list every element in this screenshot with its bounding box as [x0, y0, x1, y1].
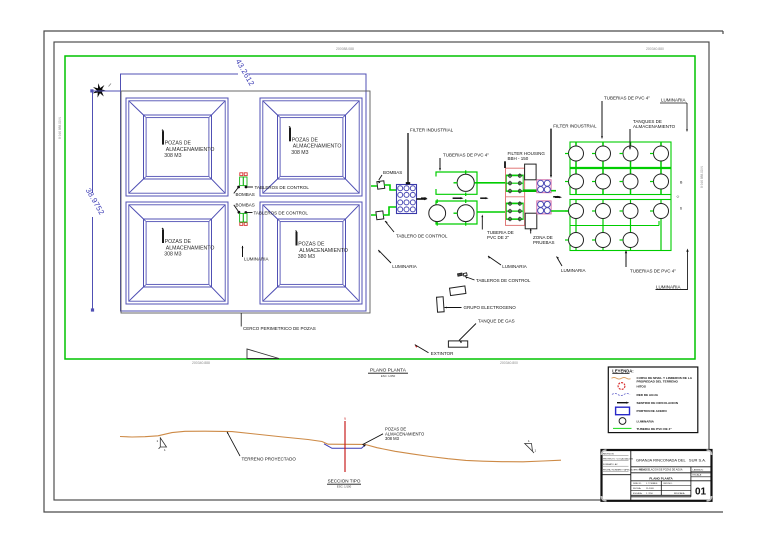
tuberias pvc4 bottom label: [625, 250, 676, 273]
svg-text:TUBERIAS DE PVC 4": TUBERIAS DE PVC 4": [443, 153, 489, 158]
grupo electrogeno rect: [437, 297, 445, 312]
svg-text:LUMINARIA: LUMINARIA: [392, 264, 417, 269]
legend box: [608, 367, 698, 433]
outer sheet border: [44, 31, 723, 512]
svg-text:REVISO:: REVISO:: [664, 483, 673, 485]
svg-text:200340.888: 200340.888: [192, 361, 210, 365]
dim text 38.9752: [88, 193, 98, 217]
svg-text:PORTON DE ACERO: PORTON DE ACERO: [637, 409, 668, 413]
bomba pump 1: [377, 181, 385, 189]
tablero rect rotated: [450, 286, 466, 296]
svg-text:PVC DE 2": PVC DE 2": [487, 235, 510, 240]
filter industrial label + leader: [406, 128, 454, 184]
svg-text:TABLEROS DE CONTROL: TABLEROS DE CONTROL: [476, 278, 531, 283]
filter housing red cabinet: [506, 168, 525, 225]
svg-text:11-2020: 11-2020: [646, 488, 655, 490]
svg-text:PLANO PLANTA: PLANO PLANTA: [370, 368, 407, 374]
svg-text:BOMBAS: BOMBAS: [236, 203, 255, 208]
title block outer: [602, 450, 712, 501]
svg-text:6: 6: [680, 207, 682, 211]
svg-text:SECCION TIPO: SECCION TIPO: [328, 479, 361, 484]
tank grid circles: [569, 146, 584, 161]
cerco perimetrico blue fence: [121, 74, 367, 311]
inner sheet border: [54, 42, 709, 500]
luminaria bottom right label: [656, 249, 689, 290]
svg-text:INDICADA: INDICADA: [674, 492, 685, 495]
svg-text:ESCALA:: ESCALA:: [633, 492, 643, 495]
bombas label lower: [234, 203, 255, 214]
svg-text:LUMINARIA: LUMINARIA: [502, 264, 527, 269]
svg-text:TABLEROS DE CONTROL: TABLEROS DE CONTROL: [255, 185, 310, 190]
svg-text:308 M3: 308 M3: [164, 252, 181, 258]
tableros de control bottom label: [465, 277, 531, 283]
pool P2 label: [289, 128, 291, 142]
svg-text:380 M3: 380 M3: [298, 254, 315, 260]
tank T3: [457, 205, 474, 222]
tank T2: [429, 205, 446, 222]
bombas label middle: [379, 170, 403, 183]
svg-text:POZAS DE: POZAS DE: [165, 141, 192, 147]
svg-text:ALMACENAMIENTO: ALMACENAMIENTO: [633, 124, 676, 129]
flow arrows row: [421, 197, 428, 199]
tank field green manifold: [570, 142, 671, 195]
svg-text:FECHA:: FECHA:: [633, 487, 641, 490]
svg-text:GRANJA RINCONADA DEL SUR S.A: GRANJA RINCONADA DEL SUR S.A.: [636, 458, 706, 463]
terrain projected line: [120, 431, 561, 462]
pipe loop2 to filter housing: [477, 211, 505, 213]
svg-text:TUBERIAS DE PVC 4": TUBERIAS DE PVC 4": [630, 268, 676, 273]
filter housing main green line in: [504, 182, 507, 184]
tank T1: [457, 174, 474, 191]
extintor leader with red tip: [415, 345, 454, 356]
pool P3 label: [162, 230, 164, 244]
svg-text:1 / 250: 1 / 250: [646, 493, 653, 495]
dimension line horizontal from star: [92, 90, 122, 92]
legend row 3 blue dashed: [612, 393, 630, 395]
svg-text:LUMINARIA: LUMINARIA: [637, 419, 655, 423]
pool P4 bottom-right: [260, 202, 362, 304]
svg-text:ESC: 1/100: ESC: 1/100: [337, 485, 352, 489]
legend row 4 arrow: [617, 402, 629, 404]
svg-text:CERCO PERIMETRICO DE POZAS: CERCO PERIMETRICO DE POZAS: [243, 326, 316, 331]
control symbol lower green boxes: [240, 223, 243, 226]
filter industrial box U1: [397, 185, 417, 214]
svg-text:LAMINA N:: LAMINA N:: [693, 468, 704, 471]
tuberias pvc4 label middle + leader: [439, 153, 489, 172]
svg-text:TABLERO DE CONTROL: TABLERO DE CONTROL: [396, 234, 448, 239]
legend row 1 terrain curve: [612, 378, 631, 380]
zona de pruebas label: [530, 228, 555, 245]
north star tick: [109, 84, 112, 87]
tank loop 1 green piping: [436, 172, 477, 194]
svg-text:POZAS DE: POZAS DE: [298, 242, 325, 248]
svg-text:PLANO PLANTA: PLANO PLANTA: [649, 477, 673, 481]
svg-text:PRUEBAS: PRUEBAS: [533, 240, 555, 245]
left bench flag: [159, 438, 167, 449]
svg-text:BOMBAS: BOMBAS: [383, 170, 402, 175]
legend row 7 green line: [613, 427, 632, 429]
grupo electrogeno label: [445, 305, 517, 310]
filter housing label: [505, 151, 545, 168]
pool P2 top-right: [260, 98, 362, 196]
svg-text:BBH - 150: BBH - 150: [508, 156, 529, 161]
svg-text:TANQUE DE GAS: TANQUE DE GAS: [478, 319, 515, 324]
tanque de gas label: [459, 319, 515, 344]
bomba pump 2: [376, 211, 384, 220]
svg-text:ALMACENAMIENTO: ALMACENAMIENTO: [166, 245, 215, 251]
pipe from T1 to filter housing: [474, 182, 505, 184]
section axis red line: [344, 421, 346, 472]
svg-text:ESCALA:: ESCALA:: [693, 474, 703, 477]
green pipes pumps to filter: [371, 185, 397, 190]
svg-text:J. TORRES: J. TORRES: [646, 483, 658, 485]
pool P4 label: [296, 232, 298, 246]
flow arrow after housing: [553, 196, 560, 198]
white rect top (housing): [525, 164, 537, 180]
pozas label section: [363, 427, 425, 447]
luminaria top right label: [660, 98, 688, 133]
svg-text:RED DE AGUA: RED DE AGUA: [637, 393, 659, 397]
svg-text:200088.088: 200088.088: [336, 47, 354, 51]
plan area green border: [65, 56, 695, 359]
luminaria bottom-left of tanks: [557, 257, 586, 273]
flow arrow out of filter: [417, 198, 428, 200]
zona de pruebas blue box 1: [537, 180, 551, 193]
slope triangle symbol: [247, 349, 279, 359]
zona de pruebas blue box 2: [537, 201, 551, 214]
filter housing green racks: [506, 175, 523, 191]
pool P3 bottom-left: [126, 202, 228, 304]
svg-text:FECHA / NOMBRE Y APELLIDO: FECHA / NOMBRE Y APELLIDO: [603, 469, 635, 472]
flow arrow into tank field: [555, 196, 562, 198]
svg-text:ALMACENAMIENTO: ALMACENAMIENTO: [166, 147, 215, 153]
svg-text:9: 9: [344, 417, 346, 421]
terreno proyectado label: [227, 432, 296, 462]
svg-text:FILTER INDUSTRIAL: FILTER INDUSTRIAL: [410, 128, 454, 133]
tableros de control label upper: [245, 185, 309, 190]
svg-text:TERRENO PROYECTADO: TERRENO PROYECTADO: [242, 457, 297, 462]
svg-text:BOMBAS: BOMBAS: [236, 192, 255, 197]
svg-text:FILTER INDUSTRIAL: FILTER INDUSTRIAL: [553, 123, 597, 128]
svg-text:308 M3: 308 M3: [291, 150, 308, 156]
svg-text:ALMACENAMIENTO: ALMACENAMIENTO: [299, 248, 348, 254]
luminaria label center: [488, 256, 527, 269]
luminaria label pools: [242, 246, 269, 262]
legend row 6 circle: [619, 418, 626, 425]
title block corner clips: [602, 450, 712, 501]
tuberia pvc2 label + leader: [481, 215, 513, 240]
tank loop 2 green piping: [436, 201, 477, 224]
legend row 2 red circle: [618, 383, 625, 390]
luminaria label left-middle: [378, 250, 417, 269]
tanques de almacenamiento label: [629, 119, 676, 150]
svg-text:LUMINARIA: LUMINARIA: [661, 98, 686, 103]
tuberias pvc4 top label: [601, 96, 650, 140]
svg-text:DIBUJO:: DIBUJO:: [633, 483, 642, 485]
pools gray enclosure: [121, 91, 370, 313]
dim text 43.2612: [238, 70, 249, 80]
svg-text:200340.880: 200340.880: [646, 47, 664, 51]
svg-text:TABLEROS DE CONTROL: TABLEROS DE CONTROL: [254, 210, 309, 215]
svg-text:01: 01: [695, 486, 707, 497]
svg-text:HITOS: HITOS: [637, 384, 646, 388]
green out of test boxes: [551, 190, 556, 192]
svg-text:REVISION:: REVISION:: [603, 454, 614, 456]
svg-text:LEYENDA:: LEYENDA:: [612, 368, 633, 373]
pond cross-section blue: [324, 444, 366, 449]
svg-text:EXTINTOR: EXTINTOR: [431, 351, 454, 356]
svg-text:POZAS DE: POZAS DE: [292, 137, 319, 143]
legend row 5 blue rect: [616, 407, 630, 415]
white rect bottom (housing): [525, 213, 537, 229]
svg-text:LUMINARIA: LUMINARIA: [656, 284, 681, 289]
tableros de control small marks: [458, 273, 463, 276]
svg-text:TUBERIA DE PVC DE 4": TUBERIA DE PVC DE 4": [637, 427, 673, 431]
dimension ticks: [91, 90, 93, 92]
svg-text:LUMINARIA: LUMINARIA: [244, 257, 269, 262]
svg-text:PROPIEDAD DEL TERRENO: PROPIEDAD DEL TERRENO: [637, 380, 679, 384]
pool P1 top-left: [126, 98, 228, 196]
svg-text:POZAS DE: POZAS DE: [165, 239, 192, 245]
dimension line vertical left: [92, 91, 94, 310]
tablero de control label middle: [385, 221, 448, 239]
svg-text:ALMACENAMIENTO: ALMACENAMIENTO: [293, 144, 342, 150]
north star symbol: [98, 83, 101, 90]
right bench flag: [525, 444, 534, 454]
svg-text:PROYECTO / LOCALIZACION: PROYECTO / LOCALIZACION: [603, 458, 634, 461]
pool P1 label: [162, 131, 164, 145]
svg-text:ESC: 1/250: ESC: 1/250: [381, 374, 396, 378]
tableros de control label lower: [245, 210, 309, 215]
svg-text:REMODELACION DE POZAS DE AGUA: REMODELACION DE POZAS DE AGUA: [639, 469, 683, 472]
svg-text:SENTIDO DE CIRCULACION: SENTIDO DE CIRCULACION: [637, 401, 679, 405]
svg-text:8 946 888.00 N: 8 946 888.00 N: [58, 117, 62, 139]
filter industrial 2 label + leader: [550, 123, 597, 178]
control symbol upper red indicators: [240, 173, 243, 176]
title block content: [602, 450, 712, 501]
svg-text:TUBERIAS DE PVC 4": TUBERIAS DE PVC 4": [604, 96, 650, 101]
tanque de gas rect: [448, 341, 467, 347]
svg-text:FORMATO: A2: FORMATO: A2: [603, 463, 618, 466]
bombas label upper: [234, 186, 255, 197]
svg-text:8 946 888.00 N: 8 946 888.00 N: [700, 166, 704, 188]
svg-text:GRUPO ELECTROGENO: GRUPO ELECTROGENO: [464, 305, 517, 310]
svg-text:308 M3: 308 M3: [164, 153, 181, 159]
thick green line to test boxes: [523, 189, 537, 192]
svg-text:200340.800: 200340.800: [500, 361, 518, 365]
cerco perimetrico leader: [240, 313, 242, 327]
svg-text:308 M3: 308 M3: [385, 436, 400, 441]
svg-text:LUMINARIA: LUMINARIA: [561, 268, 586, 273]
